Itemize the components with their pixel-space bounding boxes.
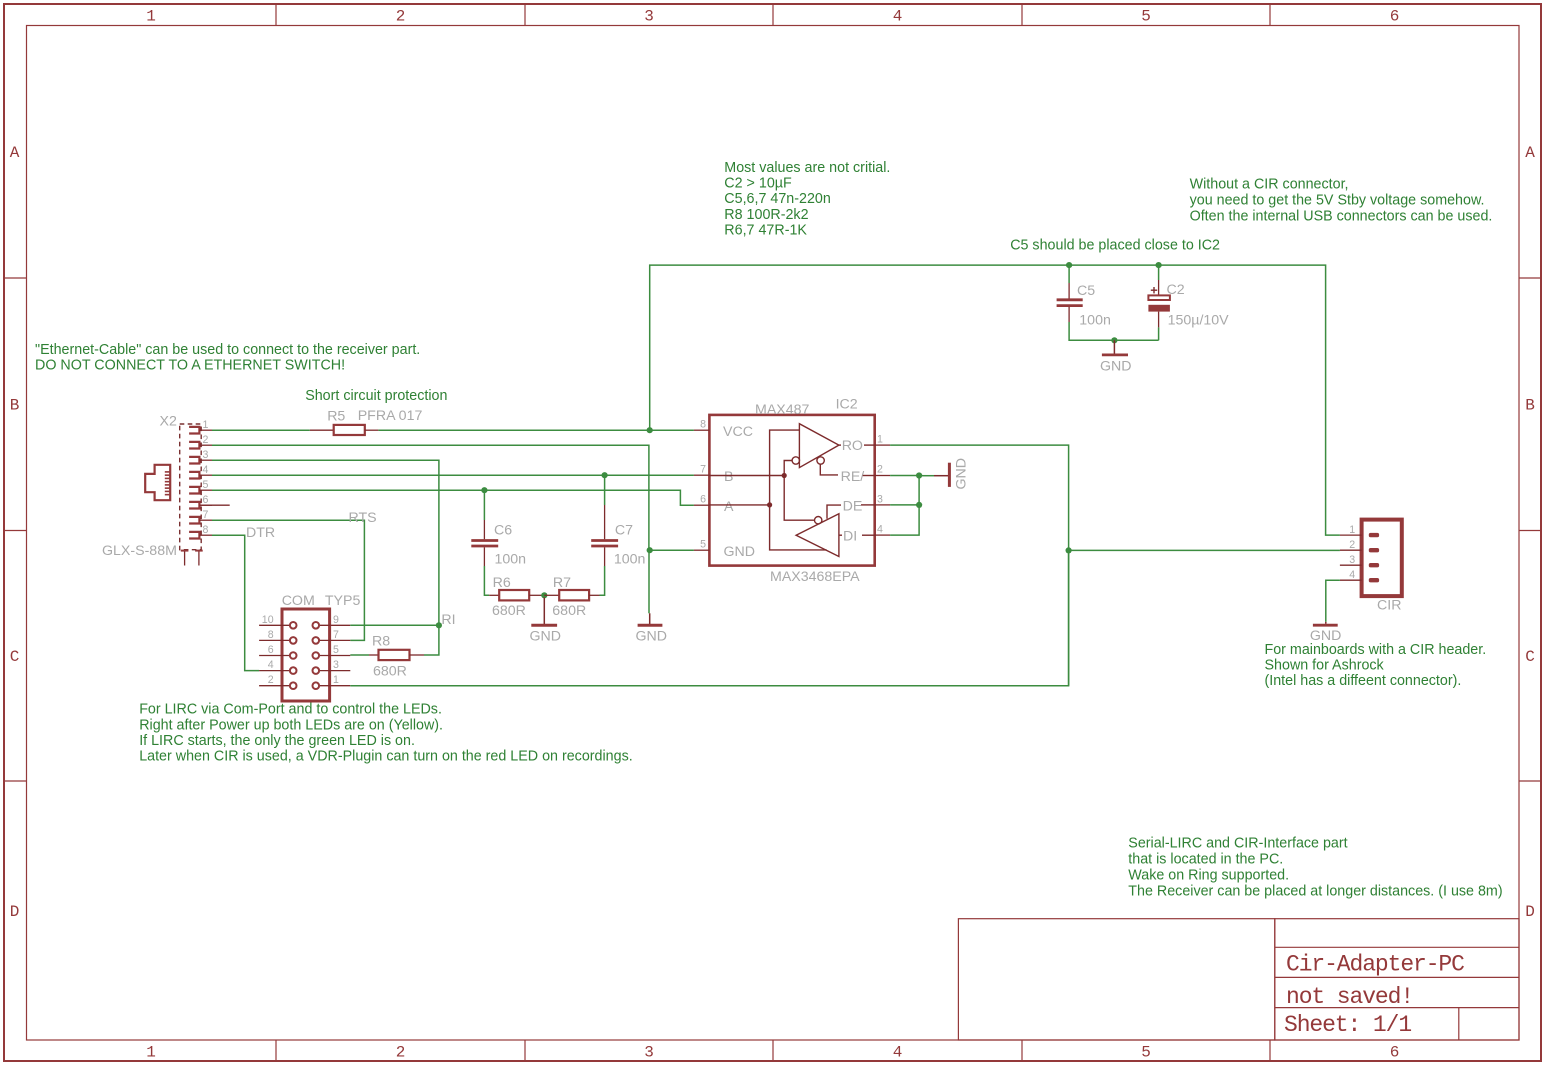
IC2 internal A line [709,504,769,506]
svg-text:GLX-S-88M: GLX-S-88M [102,543,177,559]
IC2 internal DE to box edge [861,504,875,506]
op-amp IC2 box [709,415,874,566]
svg-text:(Intel has a diffeent connecto: (Intel has a diffeent connector). [1265,673,1462,689]
svg-text:1: 1 [146,1044,156,1062]
column labels top [146,8,1399,26]
IC2 internal DI link [839,534,875,536]
IC2 internal B riser up [784,461,792,476]
wire X2 pin3 down to RI and R8 [212,460,439,655]
svg-text:C5,6,7 47n-220n: C5,6,7 47n-220n [724,191,831,207]
svg-text:3: 3 [1349,554,1355,566]
junction R6 R7 GND [541,592,547,598]
svg-text:2: 2 [268,674,274,686]
wire VCC rail to CIR pin1 [650,265,1340,535]
ground symbol below R6 R7 [531,597,557,625]
COM pin numbers left [262,614,274,686]
svg-text:that is located in the PC.: that is located in the PC. [1128,851,1283,867]
svg-text:GND: GND [530,629,562,645]
svg-text:IC2: IC2 [836,397,858,413]
svg-text:DE: DE [843,499,863,515]
IC2 bubble driver [815,517,822,524]
wire RO to CIR junction [890,445,1069,686]
COM pin numbers right [333,614,339,686]
svg-text:680R: 680R [552,603,586,619]
junction C5 on VCC rail [1066,262,1072,268]
svg-text:Serial-LIRC and CIR-Interface: Serial-LIRC and CIR-Interface part [1128,835,1347,851]
svg-text:1: 1 [333,674,339,686]
svg-text:4: 4 [893,8,903,26]
RJ45 jack symbol [145,465,170,500]
junction RO CIR COM [1066,547,1072,553]
X2 pin6 stub unconnected [200,504,229,506]
IC2 internal B line [709,475,784,477]
svg-text:2: 2 [396,1044,406,1062]
svg-text:Shown for Ashrock: Shown for Ashrock [1265,658,1385,674]
wire DI up to junction [890,476,919,536]
CIR pin stubs [1340,535,1362,580]
svg-text:1: 1 [203,419,209,431]
X2 bottom shield pins [181,551,203,566]
svg-text:R5: R5 [327,409,345,425]
svg-text:2: 2 [203,434,209,446]
capacitor C7 [591,475,618,595]
resistor R6 [489,590,544,600]
svg-text:100n: 100n [495,552,527,568]
svg-text:R8 100R-2k2: R8 100R-2k2 [724,207,808,223]
junction C6 on A line [481,487,487,493]
IC2 driver triangle [796,514,839,557]
svg-text:6: 6 [203,494,209,506]
svg-text:7: 7 [333,629,339,641]
svg-text:1: 1 [877,434,883,446]
svg-text:1: 1 [146,8,156,26]
X2 pin numbers 1-8 [203,419,209,536]
svg-text:4: 4 [1349,569,1355,581]
wire X2 pin5 A line to IC2 [212,490,694,505]
wire junction to CIR pin2 [1069,549,1340,551]
svg-text:C7: C7 [615,523,633,539]
ground symbol below CIR [1313,622,1338,625]
svg-text:8: 8 [203,524,209,536]
svg-text:you need to get the 5V Stby vo: you need to get the 5V Stby voltage some… [1190,192,1485,208]
IC2 internal RO link [839,444,875,446]
svg-text:Cir-Adapter-PC: Cir-Adapter-PC [1286,952,1464,978]
svg-text:"Ethernet-Cable" can be used t: "Ethernet-Cable" can be used to connect … [35,342,420,358]
capacitor C5 [1057,265,1159,340]
junction RI [436,622,442,628]
svg-text:4: 4 [203,464,209,476]
svg-text:2: 2 [396,8,406,26]
svg-text:R8: R8 [372,634,390,650]
svg-text:Most values are not critial.: Most values are not critial. [724,160,890,176]
row labels left [10,144,20,921]
CIR pin numbers [1349,524,1355,581]
resistor R8 [350,650,424,660]
IC2 pin numbers left [700,419,706,551]
ground symbol below C5 C2 [1102,340,1128,355]
wire RE to junction [890,475,919,477]
wire DE to junction [890,504,919,506]
wire R5 to IC2 VCC pin [378,429,694,431]
svg-text:PFRA 017: PFRA 017 [358,408,423,424]
svg-text:1: 1 [1349,524,1355,536]
svg-text:B: B [1525,397,1535,415]
connector X2 dashed body [180,424,202,550]
svg-text:A: A [1525,144,1535,162]
svg-text:DTR: DTR [246,525,275,541]
svg-text:150µ/10V: 150µ/10V [1168,313,1230,329]
svg-text:GND: GND [636,629,668,645]
svg-text:If LIRC starts, the only the g: If LIRC starts, the only the green LED i… [139,733,415,749]
IC2 receiver triangle [799,424,839,468]
svg-text:5: 5 [333,644,339,656]
svg-text:7: 7 [700,464,706,476]
ground symbol near IC2 [638,613,663,625]
IC2 internal DE link [827,505,841,519]
wire X2 pin8 DTR to COM pin4 [212,535,259,670]
junction VCC at x649 [647,427,653,433]
COM pin pads and stubs [259,622,350,689]
column labels bottom [146,1044,1399,1062]
svg-text:R6,7 47R-1K: R6,7 47R-1K [724,222,807,238]
resistor R5 [310,425,379,435]
wire CIR pin4 to ground [1326,580,1340,622]
svg-text:10: 10 [262,614,274,626]
IC2 right pin stubs [875,445,890,535]
svg-text:680R: 680R [492,603,526,619]
svg-text:RE/: RE/ [841,469,865,485]
svg-text:GND: GND [724,544,756,560]
svg-text:C2 > 10µF: C2 > 10µF [724,176,792,192]
svg-text:C5 should be placed close to I: C5 should be placed close to IC2 [1010,238,1220,254]
svg-text:R7: R7 [553,575,571,591]
svg-text:3: 3 [333,659,339,671]
svg-text:7: 7 [203,509,209,521]
svg-text:RO: RO [842,438,863,454]
svg-text:For mainboards with a CIR head: For mainboards with a CIR header. [1265,642,1487,658]
svg-text:3: 3 [203,449,209,461]
svg-text:A: A [724,499,734,515]
svg-text:5: 5 [1141,8,1151,26]
svg-text:Often the internal USB connect: Often the internal USB connectors can be… [1190,209,1493,225]
junction C5 C2 GND [1111,337,1117,343]
svg-text:B: B [724,469,733,485]
svg-text:4: 4 [877,524,883,536]
svg-text:C: C [10,648,20,666]
IC2 internal A riser up [770,430,800,505]
svg-text:3: 3 [644,1044,654,1062]
IC2 bubble RE [817,457,824,464]
IC2 left pin stubs [694,430,710,550]
resistor R7 [544,590,599,600]
RJ45 jack contacts [165,472,170,495]
svg-text:3: 3 [644,8,654,26]
svg-text:4: 4 [893,1044,903,1062]
svg-text:COM: COM [282,593,315,609]
svg-text:RI: RI [441,612,455,628]
svg-text:GND: GND [954,458,970,490]
svg-text:5: 5 [1141,1044,1151,1062]
junction RE GND [916,472,922,478]
svg-text:C6: C6 [494,523,512,539]
IC2 internal RE to box edge [863,475,875,477]
CIR pin pads [1369,533,1379,583]
connector COM TYP5 body [282,609,330,701]
svg-text:DI: DI [843,529,857,545]
svg-text:For LIRC via Com-Port and to c: For LIRC via Com-Port and to control the… [139,702,442,718]
IC2 pin numbers right [877,434,883,536]
svg-text:6: 6 [268,644,274,656]
junction C7 on B line [602,472,608,478]
svg-text:Short circuit protection: Short circuit protection [305,388,447,404]
svg-text:8: 8 [700,419,706,431]
svg-text:C2: C2 [1167,282,1185,298]
svg-text:4: 4 [268,659,274,671]
svg-text:R6: R6 [493,575,511,591]
IC2 internal B riser down [784,476,814,521]
row labels right [1525,144,1535,921]
svg-text:2: 2 [1349,539,1355,551]
junction C2 on VCC rail [1156,262,1162,268]
connector CIR body [1362,520,1402,597]
IC2 internal RE link [820,464,838,475]
wire GND net to symbol [648,550,650,613]
IC2 internal node B [782,473,787,478]
svg-text:Sheet: 1/1: Sheet: 1/1 [1284,1012,1411,1038]
svg-text:DO NOT CONNECT TO A ETHERNET S: DO NOT CONNECT TO A ETHERNET SWITCH! [35,358,345,374]
svg-text:8: 8 [268,629,274,641]
svg-text:3: 3 [877,494,883,506]
IC2 internal A riser down [770,505,827,550]
svg-text:A: A [10,144,20,162]
connector X2 socket pins [189,427,212,539]
svg-text:100n: 100n [1079,313,1111,329]
wire X2 pin2 to GND rail [212,445,649,550]
svg-text:B: B [10,397,20,415]
svg-text:D: D [1525,903,1535,921]
svg-text:RTS: RTS [349,510,377,526]
svg-text:MAX3468EPA: MAX3468EPA [770,569,860,585]
svg-text:6: 6 [1390,8,1400,26]
wire X2 pin4 B line to IC2 [212,474,694,476]
junction DE GND [916,502,922,508]
IC2 bubble B input [792,457,799,464]
svg-text:not saved!: not saved! [1286,984,1413,1010]
svg-text:6: 6 [1390,1044,1400,1062]
svg-text:VCC: VCC [723,424,753,440]
svg-text:9: 9 [333,614,339,626]
svg-text:Right after Power up both LEDs: Right after Power up both LEDs are on (Y… [139,717,443,733]
junction GND net [647,547,653,553]
svg-text:100n: 100n [614,552,646,568]
svg-text:6: 6 [700,494,706,506]
svg-text:The Receiver can be placed at: The Receiver can be placed at longer dis… [1128,883,1502,899]
svg-text:D: D [10,903,20,921]
svg-text:Without a CIR connector,: Without a CIR connector, [1190,176,1349,192]
svg-text:5: 5 [203,479,209,491]
capacitor C2 polarized [1148,265,1170,340]
wire X2 pin1 to R5 [212,429,310,431]
svg-text:5: 5 [700,539,706,551]
svg-text:Later when CIR is used, a VDR-: Later when CIR is used, a VDR-Plugin can… [139,749,633,765]
svg-text:MAX487: MAX487 [755,402,810,418]
svg-text:680R: 680R [373,664,407,680]
svg-text:C: C [1525,648,1535,666]
title block frame [958,919,1519,1040]
svg-text:GND: GND [1100,359,1132,375]
svg-text:C5: C5 [1077,283,1095,299]
svg-text:TYP5: TYP5 [325,593,361,609]
svg-text:CIR: CIR [1377,598,1401,614]
wire GND net to IC2 pin5 [649,549,694,551]
wire X2 pin7 RTS to COM pin7 [212,520,364,640]
svg-text:Wake on Ring supported.: Wake on Ring supported. [1128,867,1289,883]
capacitor C6 [471,490,498,595]
svg-text:X2: X2 [160,414,177,430]
wire COM pin1 to CIR junction [350,550,1068,685]
ground symbol rotated near IC2 pin2 [919,463,949,487]
wire COM pin9 to RI [350,624,439,626]
svg-text:2: 2 [877,464,883,476]
IC2 internal node A [767,502,772,507]
